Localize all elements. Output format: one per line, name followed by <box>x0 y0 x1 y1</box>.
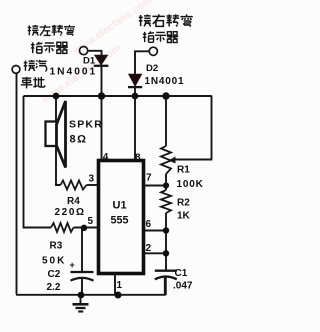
svg-text:R2: R2 <box>177 198 190 209</box>
svg-text:8Ω: 8Ω <box>70 134 88 146</box>
svg-text:100K: 100K <box>177 179 204 190</box>
svg-text:555: 555 <box>111 215 129 227</box>
svg-text:1N4001: 1N4001 <box>50 67 98 78</box>
svg-text:1N4001: 1N4001 <box>145 76 185 87</box>
svg-text:7: 7 <box>146 173 152 184</box>
svg-text:50K: 50K <box>42 256 66 267</box>
svg-text:220Ω: 220Ω <box>55 207 86 218</box>
svg-text:C1: C1 <box>175 268 188 279</box>
svg-text:4: 4 <box>103 152 109 163</box>
svg-text:D2: D2 <box>146 63 158 74</box>
svg-text:1K: 1K <box>177 211 191 222</box>
svg-text:8: 8 <box>135 153 141 164</box>
svg-text:2: 2 <box>146 243 152 254</box>
svg-text:R3: R3 <box>50 241 63 252</box>
svg-text:U1: U1 <box>113 200 127 212</box>
svg-text:D1: D1 <box>83 56 96 67</box>
svg-text:R4: R4 <box>67 196 80 207</box>
svg-text:C2: C2 <box>48 269 61 280</box>
svg-text:2.2: 2.2 <box>47 282 61 293</box>
svg-text:SPKR: SPKR <box>69 119 103 131</box>
svg-text:6: 6 <box>146 219 152 230</box>
svg-text:.047: .047 <box>173 281 193 292</box>
svg-text:1: 1 <box>117 280 123 291</box>
svg-text:5: 5 <box>88 216 94 227</box>
svg-text:+: + <box>70 260 75 270</box>
svg-text:R1: R1 <box>177 165 190 176</box>
svg-text:3: 3 <box>89 174 95 185</box>
